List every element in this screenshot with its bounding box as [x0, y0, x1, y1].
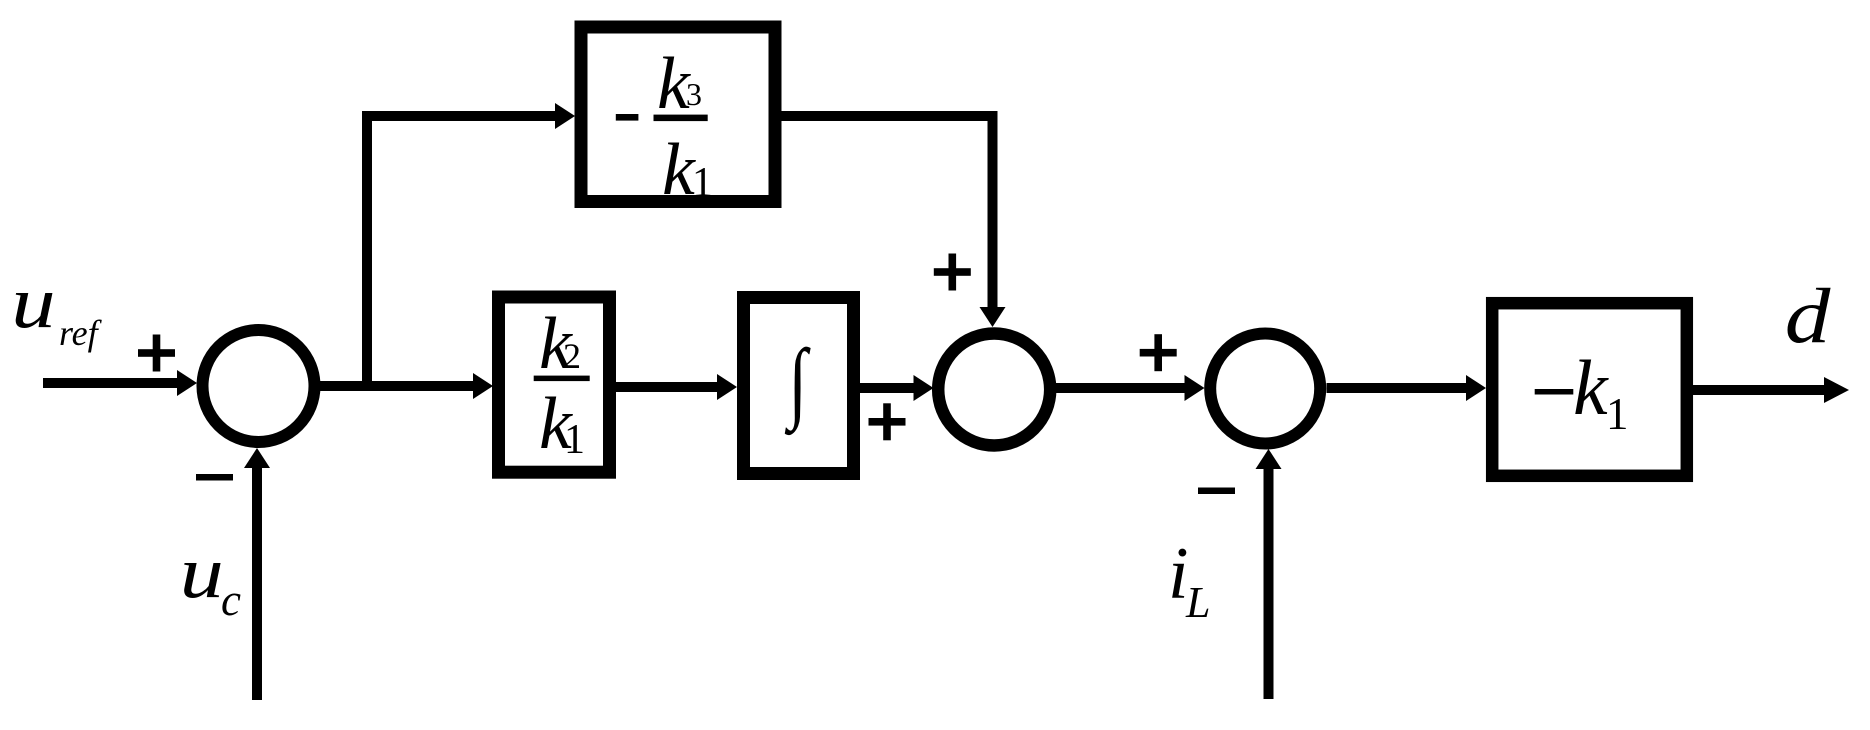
- block K3 box: [581, 27, 775, 202]
- minus sign at S1 bottom input: [196, 474, 233, 481]
- node u_ref input label: [11, 261, 55, 343]
- svg-text:u: u: [180, 531, 224, 613]
- wire integrator to S2 with arrow: [860, 383, 915, 393]
- wire block K3 output to S2 with corner and arrow: [781, 116, 993, 308]
- svg-text:1: 1: [1606, 389, 1629, 439]
- wire branch node vertical riser: [362, 116, 372, 391]
- block integrator label: [784, 332, 811, 436]
- plus sign at S3 left input: [1140, 349, 1177, 357]
- wire riser to block K3 with arrow: [362, 111, 556, 121]
- wire i_L input arrow into S3 bottom: [1264, 468, 1274, 699]
- svg-text:1: 1: [564, 417, 585, 463]
- wire block K2 to integrator with arrow: [616, 382, 718, 392]
- svg-text:ref: ref: [59, 313, 103, 353]
- svg-text:L: L: [1185, 578, 1210, 627]
- wire u_c input arrow into S1 bottom: [252, 466, 262, 700]
- wire S1 to block k2/k1 with arrow: [314, 381, 474, 391]
- block K1 label -k1: [1535, 389, 1574, 395]
- summing junction S3: [1210, 334, 1320, 444]
- plus sign at S2 top input: [934, 268, 971, 276]
- minus sign at S3 bottom input: [1198, 488, 1235, 495]
- svg-text:k: k: [662, 129, 696, 211]
- svg-text:2: 2: [563, 336, 581, 376]
- node d output label: [1785, 273, 1831, 359]
- summing junction S2: [938, 334, 1050, 446]
- svg-text:c: c: [221, 575, 241, 625]
- block integrator box: [744, 298, 854, 474]
- svg-text:k: k: [1573, 344, 1609, 431]
- wire S2 to S3 with arrow: [1055, 383, 1186, 393]
- svg-text:3: 3: [686, 76, 702, 112]
- block K1 box: [1492, 303, 1687, 476]
- svg-text:d: d: [1785, 273, 1831, 359]
- plus sign at S2 left input: [869, 418, 906, 426]
- wire output d arrow: [1693, 385, 1825, 395]
- block K2 label k2/k1: [534, 376, 590, 382]
- wire S3 to block K1 with arrow: [1327, 383, 1468, 393]
- node u_c label: [180, 531, 224, 613]
- block K2 box: [499, 297, 610, 472]
- svg-text:u: u: [11, 261, 55, 343]
- block K3 label -k3/k1: [616, 114, 639, 121]
- svg-text:1: 1: [692, 160, 713, 206]
- summing junction S1: [203, 330, 315, 442]
- wire u_ref input arrow into S1: [43, 378, 178, 388]
- plus sign at summing junction S1 input: [138, 349, 175, 357]
